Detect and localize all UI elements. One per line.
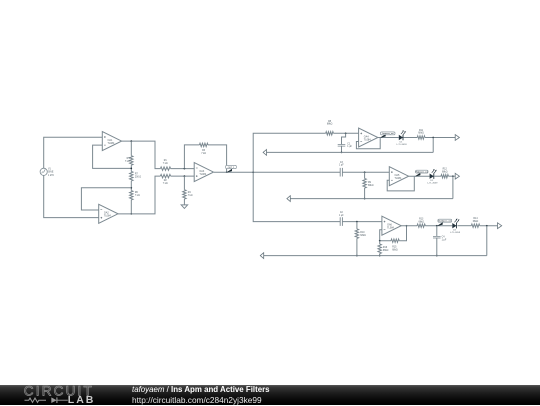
resistor R8 (326, 132, 334, 135)
svg-text:TL084: TL084 (108, 142, 115, 145)
node tag Bandpass (437, 222, 442, 226)
op-amp OA4 (359, 128, 378, 147)
wire OA4 output (378, 137, 399, 139)
port arrow left rail 2 (287, 196, 290, 202)
node junction R9 rail (364, 198, 366, 200)
svg-text:68kΩ: 68kΩ (442, 171, 448, 173)
svg-text:TL084: TL084 (199, 173, 206, 176)
port arrow left rail 3 (260, 253, 263, 259)
node junction R10 tap (356, 221, 358, 223)
resistor R1 (160, 167, 170, 170)
node junction feedback divider (379, 240, 381, 242)
capacitor C1 (338, 145, 346, 147)
resistor R14 (471, 224, 479, 227)
svg-text:1 µF: 1 µF (442, 239, 447, 241)
op-amp OA5 (389, 167, 408, 186)
svg-text:68kΩ: 68kΩ (418, 221, 424, 223)
wire R14 to output port (480, 225, 498, 227)
port arrow left rail 1 (263, 150, 266, 156)
svg-text:Lowpass_out: Lowpass_out (382, 132, 394, 135)
wire feedback right up (399, 226, 406, 241)
svg-text:68kΩ: 68kΩ (383, 250, 389, 252)
LED D1 (399, 135, 403, 140)
wire bus to bottom filter (253, 172, 340, 221)
svg-text:R10: R10 (360, 232, 365, 234)
svg-text:TL084: TL084 (395, 177, 402, 180)
wire OA1 feedback (93, 145, 132, 168)
wire C1 jog (342, 133, 346, 144)
wire R1 to OA3 inverting input (171, 168, 195, 170)
node junction feedback OA2 (130, 187, 132, 189)
wire OA6 output (401, 225, 417, 227)
port arrow right output 3 (498, 223, 502, 229)
wire OA3 output bus (214, 171, 340, 173)
svg-text:R11: R11 (419, 130, 424, 132)
node junction output return 2 (452, 175, 454, 177)
footer title text (132, 385, 270, 394)
svg-text:1 kHz: 1 kHz (48, 175, 55, 177)
svg-text:7 kΩ: 7 kΩ (163, 183, 168, 185)
resistor R4 (183, 190, 186, 199)
capacitor C3 (340, 168, 342, 177)
LED D2 (430, 174, 434, 179)
svg-text:68kΩ: 68kΩ (418, 133, 424, 135)
wire R12 to output port (448, 175, 455, 177)
svg-text:1 µF: 1 µF (339, 215, 344, 217)
wire return rail 3 (260, 255, 487, 257)
svg-text:68kΩ: 68kΩ (473, 221, 479, 223)
node tag OUT1 (227, 169, 232, 173)
wire R8 to OA4 (333, 132, 358, 134)
wire OA5 output (409, 175, 430, 177)
node junction R16 rail (379, 255, 381, 257)
resistor R3 (199, 143, 208, 146)
wire OA1 output to node (122, 141, 161, 169)
wire D1 to R11 (403, 137, 417, 139)
svg-text:Bandpass_out: Bandpass_out (438, 220, 451, 223)
wire to R4 (183, 176, 185, 190)
svg-text:R16: R16 (383, 247, 388, 249)
wire R2 to OA3 noninverting input (171, 175, 195, 177)
op-amp OA1 (102, 132, 121, 151)
node junction C4 tap (436, 225, 438, 227)
svg-text:7 kΩ: 7 kΩ (135, 195, 140, 197)
wire R11 to output port (425, 137, 455, 139)
node junction R9 tap (364, 171, 366, 173)
wire R13 to D3 (425, 225, 452, 227)
wire R10 to rail (356, 238, 358, 255)
node junction output return 3 (486, 225, 488, 227)
CircuitLab logo (0, 385, 120, 406)
node junction OA3 output feedback (226, 171, 228, 173)
svg-text:OUT_1: OUT_1 (228, 167, 235, 169)
wire R7 to R6 (130, 181, 132, 191)
op-amp OA2 (99, 204, 118, 223)
wire feedback R3 right (208, 145, 227, 172)
op-amp OA3 (194, 163, 213, 182)
svg-text:L-TL-3059: L-TL-3059 (450, 232, 461, 234)
svg-text:1 µF: 1 µF (347, 146, 352, 148)
voltage source V1 (40, 168, 47, 175)
wire to C4 (436, 226, 438, 237)
node junction OA2 output (130, 213, 132, 215)
wire R9 to rail (364, 188, 366, 199)
svg-text:R15: R15 (392, 247, 397, 249)
svg-text:L-TL-3059: L-TL-3059 (427, 183, 438, 185)
svg-text:7 kΩ: 7 kΩ (125, 161, 130, 163)
wire return rail 1 (263, 151, 433, 153)
node junction OA1 output (130, 140, 132, 142)
wire return drop 2 (452, 176, 454, 198)
node junction C1 rail (341, 152, 343, 154)
wire to R9 (364, 172, 366, 178)
wire C3 to OA5 (342, 171, 389, 173)
wire OA2 output to node (118, 176, 160, 214)
wire R4 to ground (183, 199, 185, 205)
svg-text:TL084: TL084 (104, 215, 111, 218)
resistor R11 (417, 136, 425, 139)
resistor R5 (130, 156, 133, 166)
svg-text:LAB: LAB (68, 394, 96, 406)
op-amp OA6 (382, 216, 401, 235)
node junction C1 tap (345, 132, 347, 134)
wire return drop 3 (486, 226, 488, 256)
resistor R7 (130, 171, 133, 181)
node tag Highpass (415, 173, 420, 177)
node junction output return (432, 137, 434, 139)
port arrow right output 1 (455, 135, 459, 141)
node junction R4 tap (184, 175, 186, 177)
svg-text:R13: R13 (419, 219, 424, 221)
node junction R3 tap (184, 168, 186, 170)
resistor R16 divider (378, 244, 381, 254)
wire D2 to R12 (434, 175, 441, 177)
svg-text:TL084: TL084 (364, 138, 371, 141)
wire gain resistor chain top (130, 141, 132, 156)
node junction R10 rail (356, 255, 358, 257)
node tag Lowpass (380, 134, 385, 138)
svg-text:68kΩ: 68kΩ (327, 124, 333, 126)
node junction bus split (252, 171, 254, 173)
wire OA6 feedback left (380, 230, 391, 241)
wire feedback R3 left (184, 145, 199, 169)
wire R6 to OA2 output node (130, 200, 132, 214)
resistor R9 (363, 179, 366, 189)
port arrow right output 2 (455, 173, 459, 179)
svg-text:R12: R12 (443, 169, 448, 171)
svg-text:7 kΩ: 7 kΩ (201, 153, 206, 155)
wire OA4 feedback loop (356, 138, 380, 149)
svg-text:200 Ω: 200 Ω (135, 177, 141, 179)
node junction C4 rail (436, 255, 438, 257)
wire V1 bottom to OA2 noninverting input (44, 176, 99, 218)
svg-text:SINE: SINE (48, 172, 54, 174)
wire R5 to R7 (130, 165, 132, 171)
svg-text:68kΩ: 68kΩ (392, 250, 398, 252)
wire C4 to rail (436, 238, 438, 256)
footer url text (132, 395, 262, 405)
wire R16 to rail (379, 254, 381, 256)
svg-text:R14: R14 (473, 218, 478, 220)
svg-text:L-TL-3059: L-TL-3059 (396, 144, 407, 146)
wire to R16 divider (379, 241, 381, 244)
resistor R15 feedback (391, 239, 399, 242)
node junction OA6 output feedback (406, 225, 408, 227)
resistor R12 (441, 175, 448, 178)
footer bar (0, 385, 540, 406)
resistor R2 (160, 174, 170, 177)
resistor R10 (355, 229, 358, 239)
wire V1 top to OA1 inverting input (44, 137, 103, 168)
capacitor C2 (340, 217, 342, 226)
resistor R13 (417, 224, 425, 227)
svg-text:1 µF: 1 µF (339, 165, 344, 167)
wire C1 to rail (341, 146, 343, 153)
svg-text:68kΩ: 68kΩ (360, 235, 366, 237)
LED D3 (452, 223, 456, 228)
wire to R10 (356, 222, 358, 229)
wire OA2 feedback (81, 188, 131, 210)
wire OA5 feedback loop (387, 176, 414, 191)
svg-text:7 kΩ: 7 kΩ (188, 195, 193, 197)
svg-text:68kΩ: 68kΩ (368, 185, 374, 187)
logo wire resistor diode glyph (25, 398, 47, 402)
svg-text:TL084: TL084 (387, 227, 394, 230)
wire C2 to OA6 (342, 221, 382, 223)
svg-text:7 kΩ: 7 kΩ (163, 163, 168, 165)
resistor R6 (130, 191, 133, 200)
wire return rail 2 (287, 198, 453, 200)
capacitor C4 (433, 236, 441, 238)
wire bus to top filter (253, 133, 326, 172)
wire D3 to R14 (458, 225, 472, 227)
ground (181, 205, 187, 209)
svg-text:Highpass_out: Highpass_out (416, 171, 429, 174)
wire return drop (432, 138, 434, 153)
node junction feedback OA1 (130, 168, 132, 170)
